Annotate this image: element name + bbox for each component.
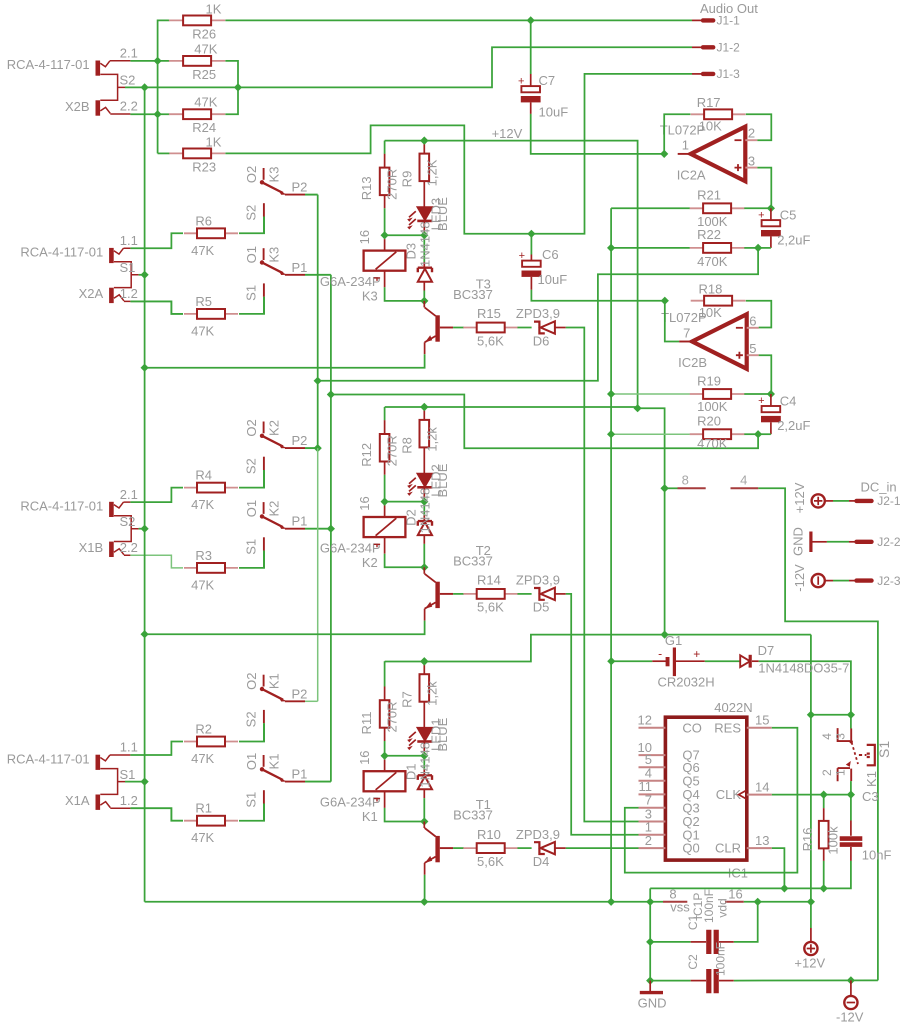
zener diode D4 ZPD3,9: [518, 847, 532, 849]
svg-text:C6: C6: [542, 247, 559, 262]
junction row K1 pin16/diode: [381, 752, 389, 760]
-12V supply symbol bottom: [850, 980, 852, 995]
svg-text:47K: 47K: [194, 41, 217, 56]
wire R4 to S2 contact: [239, 470, 264, 488]
svg-text:2: 2: [820, 769, 834, 776]
wire S1 contact to resistor: [263, 804, 265, 821]
resistor R3 47K: [184, 567, 238, 569]
svg-text:X2B: X2B: [65, 99, 90, 114]
svg-text:12: 12: [638, 713, 652, 728]
wire IC1 CLR pin13 to ground line: [772, 848, 785, 888]
svg-text:1: 1: [834, 769, 848, 776]
svg-text:2,2uF: 2,2uF: [777, 418, 810, 433]
wire P1 to bus: [305, 781, 331, 783]
wire X1A 1.2 to R1: [130, 808, 183, 821]
wire C2 to -12V rail: [734, 979, 878, 981]
wire R13 to junction: [384, 208, 386, 235]
wire C5 to R22 junction: [758, 247, 771, 249]
relay contact K1 O2/P2: [263, 675, 265, 687]
wire R11 to junction: [384, 741, 386, 756]
svg-text:D2: D2: [404, 509, 419, 526]
IC1 pin 10 Q7: [639, 754, 666, 756]
svg-text:R22: R22: [697, 227, 721, 242]
svg-text:+: +: [758, 395, 764, 407]
svg-text:1N4148: 1N4148: [418, 742, 433, 788]
resistor R20 470K: [611, 433, 690, 435]
wire X2A 1.1 to R6: [130, 233, 183, 248]
transistor T1 BC337 NPN: [435, 836, 439, 862]
svg-text:R10: R10: [477, 827, 501, 842]
svg-text:16: 16: [357, 230, 372, 244]
wire +12V rail K2 section: [384, 407, 386, 420]
relay contact common pin S2: [263, 710, 265, 723]
svg-text:10K: 10K: [699, 119, 722, 134]
resistor R21 100K: [611, 207, 690, 209]
svg-text:S1: S1: [244, 792, 259, 808]
relay contact common pin S1: [263, 283, 265, 296]
diode D3 1N4148 freewheel: [423, 235, 425, 262]
svg-text:R24: R24: [192, 120, 216, 135]
svg-text:C7: C7: [539, 73, 556, 88]
LED LED2 BLUE BLUE: [417, 474, 432, 487]
capacitor C3 10nF: [850, 795, 852, 821]
svg-text:R18: R18: [699, 282, 723, 297]
IC1 pin 14 CLK: [747, 794, 772, 796]
svg-text:R15: R15: [477, 306, 501, 321]
wire C4 to R20 junction: [758, 433, 771, 435]
svg-text:6: 6: [749, 313, 756, 328]
capacitor C6 10uF: [530, 234, 532, 255]
svg-text:R1: R1: [195, 801, 212, 816]
LED LED3 BLUE BLUE: [417, 207, 432, 220]
wire +12V node to switch pin3: [811, 714, 851, 716]
resistor R13 270R 270R: [384, 153, 386, 155]
svg-text:47K: 47K: [191, 497, 214, 512]
svg-text:S1: S1: [244, 285, 259, 301]
wire S2 contact to resistor: [263, 723, 265, 741]
resistor R11 270R 270R: [384, 675, 386, 687]
IC1 pin 13 CLR: [747, 847, 772, 849]
svg-text:R7: R7: [400, 691, 415, 708]
svg-text:O2: O2: [244, 419, 259, 436]
wire D4 zener output to IC1 Q0: [566, 847, 639, 849]
wire battery to D7: [705, 660, 740, 662]
op-amp IC2B +/- marks: [736, 327, 743, 329]
junction K1 rail R-top: [420, 657, 428, 665]
capacitor C6 10uF polarized: [522, 261, 541, 267]
junction K3 collector: [420, 297, 428, 305]
svg-text:O2: O2: [244, 166, 259, 183]
resistor R26 1K: [169, 19, 225, 21]
svg-text:G6A-234P: G6A-234P: [320, 274, 381, 289]
op-amp IC2B inverting pin 6: [747, 327, 759, 329]
wire D6 zener output to IC1 Q2: [566, 328, 639, 822]
svg-text:47K: 47K: [191, 323, 214, 338]
svg-text:R17: R17: [697, 95, 721, 110]
IC1 pin 1 Q1: [639, 834, 666, 836]
svg-text:J2-3: J2-3: [877, 574, 901, 588]
capacitor C2 100nF: [646, 977, 654, 985]
wire +12V to K1 rail: [385, 635, 665, 662]
junction row K3 pin16/diode: [381, 231, 389, 239]
svg-text:7: 7: [645, 793, 652, 808]
svg-text:100nF: 100nF: [714, 942, 728, 976]
svg-text:R19: R19: [697, 373, 721, 388]
svg-text:3: 3: [834, 733, 848, 740]
svg-text:K1: K1: [362, 809, 378, 824]
svg-text:J2-2: J2-2: [877, 535, 901, 549]
svg-text:DC_in: DC_in: [861, 480, 897, 495]
junction X1A S1 to ground bus: [125, 781, 145, 783]
svg-text:1,2K: 1,2K: [424, 159, 439, 186]
resistor R10 5,6K: [463, 847, 518, 849]
wire X2B pin 2.1 to R25 and R26 branch: [130, 60, 169, 62]
wire to IC2B pin 7: [665, 301, 679, 342]
svg-text:Q3: Q3: [682, 800, 699, 815]
wire R12 to junction: [384, 475, 386, 502]
svg-text:ZPD3,9: ZPD3,9: [516, 573, 560, 588]
wire relay K3 bottom to collector junction: [384, 271, 386, 288]
svg-text:1,2k: 1,2k: [424, 427, 439, 452]
junction P2 bus to right op-amp B input line: [314, 377, 322, 385]
svg-text:270R: 270R: [385, 435, 400, 466]
svg-text:4: 4: [740, 473, 747, 488]
transistor T3 base wire: [440, 327, 453, 329]
relay contact common pin S2: [263, 203, 265, 216]
junction K2 collector: [420, 563, 428, 571]
wire P2 to bus: [305, 194, 318, 196]
svg-text:D7: D7: [758, 643, 775, 658]
resistor R17 10K: [691, 113, 746, 115]
svg-text:D3: D3: [404, 243, 419, 260]
IC1 pin 2 Q0: [639, 847, 666, 849]
svg-text:vss: vss: [670, 900, 690, 915]
wire T2 emitter to ground bus: [145, 621, 425, 635]
pin J2-3: [849, 580, 857, 582]
svg-text:RCA-4-117-01: RCA-4-117-01: [7, 57, 90, 72]
IC1 pin 12 CO: [639, 727, 666, 729]
wire X2A 1.2 to R5: [130, 301, 183, 314]
resistor R9 1,2K 1.2K: [423, 141, 425, 154]
wire X2B pin 2.2 to R24: [130, 113, 169, 115]
wire T1 emitter to ground rail: [424, 875, 426, 902]
capacitor C1 100nF: [649, 902, 651, 981]
op-amp power pins 8 and 4: [661, 484, 669, 492]
svg-text:15: 15: [755, 713, 769, 728]
capacitor C4 2,2uF polarized: [762, 406, 781, 412]
svg-text:270R: 270R: [385, 701, 400, 732]
svg-text:P1: P1: [292, 514, 308, 529]
wire P2 to bus: [305, 700, 318, 702]
svg-text:K2: K2: [362, 555, 378, 570]
wire R21/R22 ground tie vertical: [610, 208, 612, 902]
wire C6 bottom to op-amp B feedback node: [531, 290, 664, 301]
svg-text:7: 7: [683, 325, 690, 340]
wire S1 contact to resistor: [263, 551, 265, 568]
svg-text:16: 16: [728, 887, 742, 902]
svg-text:O2: O2: [244, 673, 259, 690]
resistor R24 47K: [169, 113, 225, 115]
IC1P power pin 16 vdd: [725, 901, 744, 903]
svg-text:CO: CO: [682, 720, 702, 735]
resistor R18 10K: [691, 300, 746, 302]
svg-text:1N4148DO35-7: 1N4148DO35-7: [758, 661, 849, 676]
wire IC1 CLK pin14 to R16/C3/S1: [772, 794, 851, 796]
wire X1B 2.1 to R4: [130, 488, 183, 503]
wire P1 to bus: [305, 274, 331, 276]
wire +12V down to S1 switch area: [810, 635, 812, 902]
relay coil K1 G6A-234P: [384, 756, 386, 760]
junction K1 collector: [420, 817, 428, 825]
svg-text:R12: R12: [359, 443, 374, 467]
resistor R14 5,6K: [463, 593, 518, 595]
wire S2 contact to resistor: [263, 217, 265, 234]
wire X2B S2 line to J1-2: [125, 47, 692, 87]
svg-text:K1: K1: [864, 771, 879, 787]
svg-text:1.1: 1.1: [120, 233, 138, 248]
wire R23 left: [158, 152, 170, 154]
svg-text:K3: K3: [267, 167, 282, 183]
svg-text:CR2032H: CR2032H: [658, 675, 715, 690]
resistor R15 5,6K: [463, 327, 518, 329]
junction R19/C4/pin5: [767, 390, 775, 398]
svg-text:P2: P2: [292, 433, 308, 448]
svg-text:BC337: BC337: [453, 287, 493, 302]
wire +12V K2 rail: [385, 406, 638, 408]
svg-text:RCA-4-117-01: RCA-4-117-01: [20, 499, 103, 514]
wire +12V rail K1 section: [384, 661, 386, 674]
svg-text:2.2: 2.2: [120, 99, 138, 114]
junction row K2 pin16/diode: [381, 498, 389, 506]
IC1 pin 7 Q3: [639, 807, 666, 809]
svg-text:S2: S2: [244, 711, 259, 727]
svg-text:ZPD3,9: ZPD3,9: [516, 827, 560, 842]
svg-text:S2: S2: [120, 514, 136, 529]
wire vertical tie 2.1-2.2 bank: [157, 61, 159, 153]
resistor R6 47K: [184, 232, 238, 234]
RCA connector X1B RCA-4-117-01: [109, 502, 114, 517]
svg-text:C1: C1: [686, 915, 700, 931]
wire relay K2 bottom to collector junction: [384, 537, 386, 554]
wire R6 to S2 contact: [239, 217, 264, 234]
svg-text:S1: S1: [120, 260, 136, 275]
svg-text:R4: R4: [195, 468, 212, 483]
wire S2 contact to resistor: [263, 470, 265, 488]
svg-text:1.2: 1.2: [120, 286, 138, 301]
pin J1-2: [692, 46, 703, 48]
diode D7 1N4148DO35-7: [740, 655, 750, 667]
wire R26 output to J1-1: [225, 19, 692, 21]
relay coil K3 G6A-234P: [384, 235, 386, 239]
svg-text:5,6K: 5,6K: [477, 854, 504, 869]
diode D1 1N4148 freewheel: [423, 756, 425, 770]
ground symbol GND bottom: [649, 981, 651, 991]
svg-text:S1: S1: [244, 539, 259, 555]
pushbutton S1: [850, 715, 852, 729]
resistor R23 1K: [169, 152, 225, 154]
transistor T1 base wire: [440, 847, 453, 849]
relay contact K1 O1/P1: [263, 755, 265, 767]
svg-text:-: -: [658, 646, 662, 660]
svg-text:-12V: -12V: [792, 564, 807, 592]
RCA connector X2A RCA-4-117-01: [109, 248, 114, 263]
svg-text:CLR: CLR: [715, 841, 741, 856]
wire ground rail to C3/R16 line: [649, 888, 651, 901]
resistor R12 270R 270R: [384, 419, 386, 421]
IC1 pin 11 Q4: [639, 793, 666, 795]
svg-text:8: 8: [682, 473, 689, 488]
svg-text:D5: D5: [533, 600, 550, 615]
IC1 pin 4 Q5: [639, 780, 666, 782]
svg-text:O1: O1: [244, 500, 259, 517]
IC1P power pin 8 vss: [663, 901, 687, 903]
svg-text:+: +: [693, 647, 700, 661]
wire P2 bus vertical thin lower half: [317, 448, 319, 701]
IC1 pin 5 Q6: [639, 766, 666, 768]
svg-text:10K: 10K: [699, 305, 722, 320]
wire R3 to S1 contact: [239, 551, 264, 568]
wire R17 to IC2A pin 2: [746, 114, 772, 140]
svg-text:X1A: X1A: [65, 793, 90, 808]
junction op-amp B inverting node: [661, 297, 669, 305]
svg-text:RCA-4-117-01: RCA-4-117-01: [20, 245, 103, 260]
ground rail: [145, 901, 663, 903]
junction op-amp A output node: [660, 150, 668, 158]
svg-text:1: 1: [682, 138, 689, 153]
svg-text:+12V: +12V: [492, 126, 523, 141]
svg-text:G6A-234P: G6A-234P: [320, 795, 381, 810]
wire +12V rail K3 section: [384, 141, 386, 154]
svg-text:4: 4: [820, 733, 834, 740]
wire LED2 BLUE to junction row: [423, 488, 425, 502]
relay coil K2 G6A-234P: [384, 502, 386, 506]
resistor R1 47K: [184, 820, 238, 822]
svg-text:47K: 47K: [191, 577, 214, 592]
wire P2 bus vertical: [317, 195, 319, 449]
wire +12V to op-amp power pin 8: [638, 408, 665, 634]
relay contact K2 O2/P2: [263, 422, 265, 434]
svg-text:S1: S1: [120, 767, 136, 782]
svg-text:R21: R21: [697, 188, 721, 203]
svg-text:2.1: 2.1: [120, 46, 138, 61]
svg-text:+12V: +12V: [792, 482, 807, 513]
svg-text:-12V: -12V: [836, 1010, 864, 1024]
capacitor C7 10uF: [530, 20, 532, 74]
wire R5 to S1 contact: [239, 297, 264, 314]
RCA connector X1A RCA-4-117-01: [96, 755, 101, 770]
wire relay K1 bottom to collector junction: [384, 791, 386, 808]
svg-text:1K: 1K: [206, 135, 222, 150]
wire R24 right to S2 net: [225, 87, 238, 114]
transistor T2 base wire: [440, 593, 453, 595]
junction R21/C5/pin3: [767, 204, 775, 212]
svg-text:C3: C3: [862, 789, 879, 804]
svg-text:5,6K: 5,6K: [477, 600, 504, 615]
+12V supply symbol J2-1: [812, 494, 825, 507]
op-amp IC2A +/- marks: [735, 139, 742, 141]
resistor R25 47K: [169, 60, 225, 62]
pushbutton S1 actuator: [859, 754, 867, 756]
svg-text:270R: 270R: [385, 169, 400, 200]
pin J1-1: [692, 19, 703, 21]
relay contact K3 O1/P1: [263, 248, 265, 260]
svg-text:470K: 470K: [697, 254, 728, 269]
svg-text:R2: R2: [195, 722, 212, 737]
junction +12V rail R9: [420, 137, 428, 145]
wire C7 bottom to op-amp A output: [531, 114, 665, 154]
svg-text:O1: O1: [244, 246, 259, 263]
svg-text:1.1: 1.1: [120, 740, 138, 755]
svg-text:GND: GND: [790, 527, 805, 556]
-12V supply symbol J2-3: [812, 574, 825, 587]
svg-text:C4: C4: [780, 394, 797, 409]
svg-text:R26: R26: [192, 26, 216, 41]
wire R26 left branch: [158, 20, 170, 61]
wire X1A 1.1 to R2: [130, 742, 183, 756]
transistor T2 BC337 NPN: [435, 582, 439, 608]
svg-text:S2: S2: [244, 458, 259, 474]
svg-text:47K: 47K: [191, 830, 214, 845]
svg-text:RES: RES: [714, 720, 741, 735]
wire IC2A feedback to R17: [664, 114, 690, 154]
svg-text:+: +: [758, 209, 764, 221]
svg-text:R3: R3: [195, 548, 212, 563]
wire op-amp pin4 to -12V rail: [758, 488, 878, 980]
svg-text:+: +: [518, 75, 524, 87]
junction X2A S1 to ground bus: [139, 274, 145, 276]
svg-text:47K: 47K: [191, 243, 214, 258]
op-amp IC2A output pin 1: [678, 153, 691, 155]
svg-text:2.2: 2.2: [120, 540, 138, 555]
svg-text:R14: R14: [477, 573, 501, 588]
wire R1 to S1 contact: [239, 804, 264, 821]
pin J1-3: [692, 73, 703, 75]
svg-text:R23: R23: [192, 159, 216, 174]
svg-text:R6: R6: [195, 213, 212, 228]
junction P1 bus to op-amp A input line: [327, 390, 335, 398]
svg-text:R13: R13: [359, 176, 374, 200]
svg-text:X1B: X1B: [79, 540, 104, 555]
svg-text:S1: S1: [876, 741, 892, 758]
svg-text:RCA-4-117-01: RCA-4-117-01: [7, 751, 90, 766]
svg-text:O1: O1: [244, 753, 259, 770]
wire P2 to bus: [305, 447, 318, 449]
wire D5 zener output to IC1 Q1: [566, 594, 639, 835]
ground bus left vertical: [144, 87, 146, 901]
resistor R4 47K: [184, 487, 238, 489]
LED LED1 BLUE BLUE: [417, 728, 432, 741]
svg-text:S2: S2: [120, 73, 136, 88]
svg-text:470K: 470K: [697, 436, 728, 451]
wire X1B 2.2 to R3: [130, 555, 183, 568]
wire LED3 BLUE to junction row: [423, 222, 425, 236]
svg-text:16: 16: [357, 496, 372, 510]
svg-text:R9: R9: [400, 171, 415, 188]
junction K3 rail R-top: [420, 137, 428, 145]
wire S1 pin1 to CLK line: [850, 781, 852, 795]
svg-text:1,2k: 1,2k: [424, 681, 439, 706]
capacitor C7 10uF polarized: [521, 86, 540, 92]
relay contact common pin S2: [263, 457, 265, 470]
svg-text:BC337: BC337: [453, 554, 493, 569]
svg-text:P1: P1: [292, 767, 308, 782]
svg-text:G1: G1: [665, 633, 682, 648]
relay contact common pin S1: [263, 790, 265, 803]
svg-text:J1-2: J1-2: [717, 41, 741, 55]
junction X1B S2 to ground bus: [139, 528, 145, 530]
svg-text:100nF: 100nF: [702, 889, 716, 923]
svg-text:vdd: vdd: [716, 898, 730, 917]
